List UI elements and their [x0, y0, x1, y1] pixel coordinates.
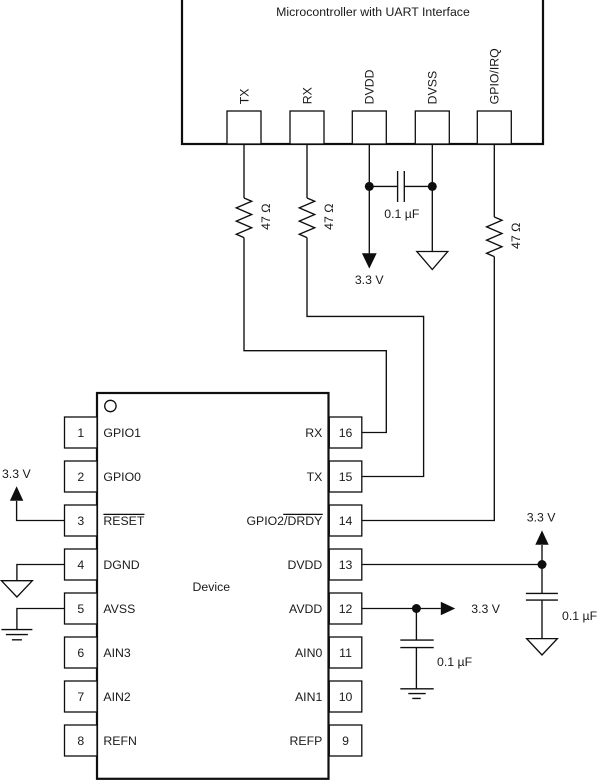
- wire DVDD to capacitor: [369, 185, 397, 187]
- device pin box 11: [329, 637, 362, 668]
- junction dot pin13: [538, 560, 547, 569]
- svg-text:Microcontroller with UART Inte: Microcontroller with UART Interface: [276, 5, 470, 19]
- svg-text:GPIO1: GPIO1: [103, 426, 141, 440]
- svg-text:12: 12: [339, 602, 353, 616]
- svg-text:4: 4: [77, 558, 84, 572]
- device pin box 5: [65, 593, 98, 624]
- wire up to 3.3V arrow: [541, 545, 543, 565]
- svg-text:0.1 µF: 0.1 µF: [437, 655, 473, 669]
- device pin box 9: [329, 725, 362, 756]
- svg-text:REFN: REFN: [103, 734, 136, 748]
- svg-text:TX: TX: [237, 89, 251, 105]
- ground symbol DGND (open triangle): [1, 581, 32, 597]
- junction dot pin12: [412, 604, 421, 613]
- wire pin12 AVDD to supply: [362, 608, 441, 610]
- svg-text:AIN2: AIN2: [103, 690, 130, 704]
- device pin box 13: [329, 549, 362, 580]
- device pin box 16: [329, 417, 362, 448]
- wire C2 to ground: [541, 600, 543, 639]
- capacitor C1 0.1uF plates: [398, 171, 405, 202]
- device pin box 15: [329, 461, 362, 492]
- MCU pin box DVSS: [415, 111, 449, 144]
- wire pin3 RESET to 3.3V: [17, 501, 65, 521]
- power arrow 3.3V up (RESET): [10, 486, 23, 500]
- wire pin4 DGND to ground: [17, 565, 65, 581]
- svg-text:AIN0: AIN0: [295, 646, 322, 660]
- svg-text:RX: RX: [300, 87, 314, 104]
- device pin box 7: [65, 681, 98, 712]
- svg-text:Device: Device: [193, 580, 231, 594]
- device pin box 3: [65, 505, 98, 536]
- svg-text:0.1 µF: 0.1 µF: [562, 609, 597, 623]
- svg-text:DVDD: DVDD: [287, 558, 322, 572]
- microcontroller U1 box: [182, 0, 543, 144]
- device U2 box: [97, 393, 329, 779]
- device pin box 4: [65, 549, 98, 580]
- MCU pin box TX: [227, 111, 261, 144]
- svg-text:GPIO/IRQ: GPIO/IRQ: [488, 48, 502, 104]
- resistor R3 47ohm (GPIO/IRQ): [487, 217, 502, 257]
- ground symbol pin12 (earth): [400, 689, 433, 699]
- junction dot DVSS: [428, 182, 437, 191]
- capacitor C2 0.1uF plates: [526, 593, 558, 600]
- svg-text:3.3 V: 3.3 V: [2, 467, 32, 481]
- svg-text:2: 2: [77, 470, 84, 484]
- wire capacitor to DVSS: [404, 185, 432, 187]
- power arrow 3.3V down (DVDD): [362, 253, 377, 268]
- wire RX from MCU pin down to resistor: [306, 144, 308, 198]
- power arrow 3.3V right (pin12): [441, 602, 455, 615]
- wire down to capacitor C2: [541, 565, 543, 594]
- svg-text:3: 3: [77, 514, 84, 528]
- svg-text:47 Ω: 47 Ω: [509, 223, 523, 249]
- device pin box 2: [65, 461, 98, 492]
- wire R1 to device pin16 RX: [244, 238, 386, 433]
- svg-text:GPIO0: GPIO0: [103, 470, 141, 484]
- wire C3 to ground: [415, 648, 417, 689]
- wire down to capacitor C3: [415, 609, 417, 641]
- svg-text:DVSS: DVSS: [426, 71, 440, 105]
- svg-text:47 Ω: 47 Ω: [259, 204, 273, 230]
- svg-text:DGND: DGND: [103, 558, 139, 572]
- MCU pin box GPIO/IRQ: [477, 111, 511, 144]
- device pin box 1: [65, 417, 98, 448]
- pin1 indicator circle: [105, 400, 116, 411]
- svg-text:AIN3: AIN3: [103, 646, 130, 660]
- svg-text:GPIO2/DRDY: GPIO2/DRDY: [246, 514, 322, 528]
- device pin box 6: [65, 637, 98, 668]
- ground symbol AVSS (earth): [1, 630, 32, 640]
- MCU pin box DVDD: [352, 111, 386, 144]
- junction dot DVDD: [365, 182, 374, 191]
- svg-text:16: 16: [339, 426, 353, 440]
- device pin box 14: [329, 505, 362, 536]
- svg-text:7: 7: [77, 690, 84, 704]
- capacitor C3 0.1uF plates: [400, 640, 433, 648]
- svg-text:10: 10: [339, 690, 353, 704]
- wire R3 to device pin14: [362, 257, 495, 521]
- wire R2 to device pin15 TX: [307, 238, 424, 477]
- svg-text:3.3 V: 3.3 V: [527, 511, 557, 525]
- MCU pin box RX: [290, 111, 324, 144]
- svg-text:TX: TX: [307, 470, 323, 484]
- svg-text:13: 13: [339, 558, 353, 572]
- svg-text:5: 5: [77, 602, 84, 616]
- device pin box 12: [329, 593, 362, 624]
- wire pin5 AVSS to ground: [17, 609, 65, 630]
- wire DVDD down: [368, 144, 370, 253]
- svg-text:0.1 µF: 0.1 µF: [384, 207, 420, 221]
- svg-text:RESET: RESET: [103, 514, 144, 528]
- wire TX from MCU pin down to resistor: [243, 144, 245, 198]
- svg-text:47 Ω: 47 Ω: [322, 204, 336, 230]
- svg-text:AVSS: AVSS: [103, 602, 135, 616]
- svg-text:3.3 V: 3.3 V: [471, 602, 501, 616]
- svg-text:14: 14: [339, 514, 353, 528]
- svg-text:REFP: REFP: [290, 734, 323, 748]
- svg-text:15: 15: [339, 470, 353, 484]
- resistor R2 47ohm (RX): [299, 198, 314, 238]
- wire pin13 DVDD to supply: [362, 564, 542, 566]
- device pin box 10: [329, 681, 362, 712]
- device pin box 8: [65, 725, 98, 756]
- svg-text:6: 6: [77, 646, 84, 660]
- resistor R1 47ohm (TX): [236, 198, 251, 238]
- ground symbol DVSS (open triangle): [417, 252, 448, 270]
- svg-text:AVDD: AVDD: [289, 602, 322, 616]
- wire DVSS down: [431, 144, 433, 252]
- wire GPIO/IRQ down to resistor: [493, 144, 495, 217]
- svg-text:3.3 V: 3.3 V: [355, 273, 385, 287]
- svg-text:1: 1: [77, 426, 84, 440]
- svg-text:8: 8: [77, 734, 84, 748]
- svg-text:11: 11: [339, 646, 352, 660]
- svg-text:AIN1: AIN1: [295, 690, 322, 704]
- svg-text:9: 9: [342, 734, 349, 748]
- svg-text:DVDD: DVDD: [363, 69, 377, 104]
- svg-text:RX: RX: [305, 426, 322, 440]
- ground symbol pin13 (open triangle): [527, 639, 558, 655]
- power arrow 3.3V up (pin13): [535, 530, 548, 544]
